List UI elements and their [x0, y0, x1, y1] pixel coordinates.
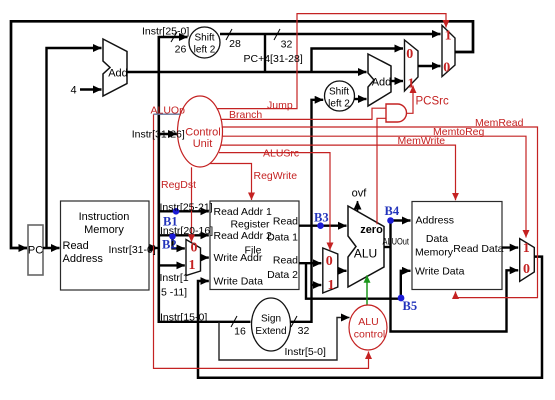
svg-text:ALUSrc: ALUSrc	[263, 148, 299, 160]
label RegDst	[161, 179, 196, 191]
label Instr[5-0]	[285, 346, 327, 358]
node B2	[162, 233, 177, 252]
svg-text:Memory: Memory	[415, 247, 454, 259]
wire ALUOp stub from control unit	[154, 113, 182, 115]
svg-text:Instr[15-0]: Instr[15-0]	[160, 312, 207, 324]
label ALUOp	[151, 105, 186, 117]
wire PC+4 branch up to PCSrc mux 0	[312, 49, 404, 73]
wire overflow out of ALU	[352, 188, 368, 212]
wire MemRead control signal to data memory bottom	[222, 127, 538, 298]
svg-text:Instr[1: Instr[1	[160, 272, 189, 284]
svg-text:Read: Read	[273, 216, 298, 228]
svg-text:Address: Address	[416, 215, 455, 227]
label 28	[226, 29, 241, 50]
label MemRead	[475, 117, 524, 129]
svg-text:Instr[25-0]: Instr[25-0]	[142, 26, 189, 38]
mux MemtoReg (write-back)	[520, 239, 535, 282]
wire B2 branch down to RegDst mux 0	[173, 235, 185, 248]
adder Add2 (branch target)	[368, 54, 391, 106]
wire junction PC+4[31-28] up	[264, 34, 266, 72]
svg-text:B4: B4	[385, 204, 400, 218]
label Instr[15-11]	[160, 272, 189, 299]
wire read data 2 to ALUSrc mux 0	[299, 262, 321, 264]
svg-text:RegWrite: RegWrite	[254, 170, 298, 182]
wire shift left 2 out to Add2	[354, 98, 367, 100]
AND gate (branch and zero)	[386, 104, 407, 122]
wire ALU result stub	[384, 246, 391, 248]
svg-text:Sign: Sign	[261, 314, 281, 325]
svg-text:PC+4[31-28]: PC+4[31-28]	[244, 53, 303, 65]
label Instr[31-26]	[132, 129, 185, 141]
svg-text:0: 0	[523, 262, 530, 277]
svg-text:28: 28	[229, 38, 241, 50]
label Jump	[267, 99, 293, 111]
wire MemWrite control signal to data memory top	[221, 145, 456, 200]
label PC+4[31-28]	[244, 53, 303, 65]
svg-text:0: 0	[191, 241, 198, 256]
label MemtoReg	[433, 126, 485, 138]
svg-text:Write Data: Write Data	[214, 276, 264, 288]
svg-text:RegDst: RegDst	[161, 179, 196, 191]
svg-text:Shift: Shift	[329, 87, 349, 98]
label Instr[25-21]	[160, 201, 213, 213]
svg-text:PC: PC	[28, 245, 43, 257]
wire sign extend out up to shift left 2 branch	[291, 100, 324, 322]
instruction memory	[61, 201, 150, 290]
node B3	[314, 211, 329, 230]
mux ALUSrc	[323, 248, 338, 293]
label ALUOut	[383, 237, 410, 247]
svg-text:32: 32	[281, 39, 293, 51]
svg-text:Add: Add	[372, 77, 392, 89]
svg-text:Data 1: Data 1	[267, 232, 298, 244]
svg-text:Write Data: Write Data	[415, 266, 465, 278]
mux PCSrc	[405, 40, 419, 92]
svg-text:Instr[5-0]: Instr[5-0]	[285, 346, 327, 358]
svg-text:1: 1	[328, 278, 335, 293]
wire MemtoReg control signal to write-back mux	[222, 136, 526, 237]
shift left 2 (jump)	[189, 27, 220, 58]
svg-text:Control: Control	[185, 127, 220, 139]
svg-text:4: 4	[70, 85, 76, 97]
svg-text:Instr[31-26]: Instr[31-26]	[132, 129, 185, 141]
wire instruction bus vertical	[158, 37, 161, 322]
label 32 (sign extended)	[291, 316, 309, 337]
shift left 2 (branch)	[325, 81, 355, 111]
wire ALUSrc control signal to ALUSrc mux	[219, 153, 330, 250]
wire Jump control signal	[217, 14, 446, 109]
wire ALU control out to ALU (green)	[366, 275, 368, 304]
svg-text:Instr[31-0]: Instr[31-0]	[109, 244, 156, 256]
svg-text:Read Data: Read Data	[453, 243, 503, 255]
svg-text:1: 1	[189, 258, 196, 273]
wire read data 2 down around to data memory write data	[306, 263, 411, 299]
label PCSrc	[416, 96, 449, 108]
label 32 (jump address)	[274, 29, 292, 51]
wire PCSrc mux out to jump mux 0	[418, 65, 441, 67]
svg-text:Instruction: Instruction	[79, 211, 130, 223]
wire instr[15-0] to sign extend	[158, 321, 251, 323]
svg-text:Read: Read	[273, 255, 298, 267]
wire constant 4 into Add1	[70, 85, 101, 97]
wire Branch control signal to AND gate	[221, 108, 387, 119]
wire instr[31-26] to control unit	[159, 133, 177, 135]
svg-text:B2: B2	[162, 238, 177, 252]
svg-text:B5: B5	[403, 299, 418, 313]
svg-text:0: 0	[443, 61, 450, 76]
wire read data 1 to ALU	[299, 224, 347, 226]
svg-text:PCSrc: PCSrc	[416, 96, 449, 108]
svg-text:Extend: Extend	[255, 326, 286, 337]
wire instr[15-11] to RegDst mux 1	[159, 264, 185, 266]
wire AND gate out PCSrc select	[407, 86, 414, 114]
mux RegDst	[186, 240, 201, 276]
svg-text:ovf: ovf	[352, 188, 368, 200]
wire Add2 out to PCSrc mux 1	[391, 80, 403, 82]
svg-text:26: 26	[175, 44, 187, 56]
label Instr[20-16]	[160, 225, 213, 237]
wire PC feedback loop from jump mux output to PC input	[11, 21, 473, 248]
svg-text:B3: B3	[314, 211, 329, 225]
wire instr[5-0] to ALU control	[219, 318, 350, 361]
wire RegDst mux out to write addr	[201, 256, 209, 258]
wire jump address to jump mux 1	[220, 33, 441, 35]
label Instr[25-0]	[142, 26, 189, 56]
wire ALUSrc mux out to ALU	[338, 270, 347, 272]
wire PC out up to Add1	[47, 48, 102, 248]
label Branch	[229, 109, 262, 121]
svg-text:Read: Read	[63, 240, 89, 252]
svg-text:Address: Address	[63, 253, 104, 265]
svg-text:16: 16	[234, 326, 246, 338]
label MemWrite	[398, 135, 446, 147]
wire ALUOp control signal to ALU control	[154, 114, 369, 368]
ALU U1	[348, 206, 384, 287]
wire PC+4 from Add1 to Add2	[127, 71, 367, 73]
svg-text:left 2: left 2	[328, 99, 350, 110]
svg-text:1: 1	[445, 29, 452, 44]
sign extend	[252, 298, 291, 351]
svg-text:Add: Add	[108, 68, 128, 80]
adder Add1 (PC+4)	[103, 39, 128, 96]
control unit	[178, 96, 223, 167]
svg-text:Data 2: Data 2	[267, 269, 298, 281]
svg-text:ALUOp: ALUOp	[151, 105, 186, 117]
node B1	[163, 208, 179, 229]
svg-text:ALUOut: ALUOut	[383, 237, 410, 247]
svg-text:Read Addr 2: Read Addr 2	[214, 230, 273, 242]
svg-text:control: control	[354, 329, 386, 341]
wire data memory read data to write-back mux 1	[502, 246, 518, 248]
PC register	[28, 225, 43, 275]
svg-text:0: 0	[326, 254, 333, 269]
svg-text:Read Addr 1: Read Addr 1	[214, 206, 273, 218]
svg-text:Branch: Branch	[229, 109, 262, 121]
node B5	[398, 295, 417, 313]
wire immediate to ALUSrc mux 1	[312, 284, 322, 286]
wire instr[25-0] to shift left 2	[158, 36, 188, 38]
ALU control	[349, 305, 387, 350]
label Instr[31-0]	[109, 244, 156, 256]
wire RegDst control signal to RegDst mux	[191, 167, 193, 242]
wire ALUOut to data memory address	[391, 219, 411, 221]
label ALUSrc	[263, 148, 299, 160]
svg-text:zero: zero	[360, 224, 383, 236]
svg-text:Data: Data	[426, 233, 448, 245]
svg-text:0: 0	[406, 47, 413, 62]
node B4	[385, 204, 400, 224]
wire instr[20-16] to read addr 2	[159, 234, 209, 236]
wire instruction memory out	[149, 247, 158, 249]
label RegWrite	[254, 170, 298, 182]
wire instr[25-21] to read addr 1	[159, 210, 209, 212]
svg-text:1: 1	[523, 241, 530, 256]
mux Jump	[442, 25, 455, 76]
svg-text:left 2: left 2	[194, 45, 216, 56]
svg-text:Shift: Shift	[194, 33, 214, 44]
svg-text:ALU: ALU	[358, 316, 378, 328]
svg-text:Instr[25-21]: Instr[25-21]	[160, 201, 213, 213]
svg-text:Memory: Memory	[84, 224, 124, 236]
data memory	[412, 202, 504, 290]
wire ALUOut vertical and around to write-back mux 0	[391, 221, 519, 332]
svg-text:MemWrite: MemWrite	[398, 135, 446, 147]
svg-text:5 -11]: 5 -11]	[161, 287, 187, 299]
svg-text:Instr[20-16]: Instr[20-16]	[160, 225, 213, 237]
wire RegWrite control signal to register file	[210, 164, 252, 201]
wire write-back mux out around bottom to register write data	[198, 257, 542, 378]
svg-text:32: 32	[298, 325, 310, 337]
svg-text:ALU: ALU	[354, 247, 377, 261]
svg-text:Register: Register	[230, 219, 270, 231]
register file	[210, 201, 299, 290]
label Instr[15-0]	[160, 312, 207, 324]
svg-text:Write Addr: Write Addr	[214, 252, 263, 264]
label 16	[231, 316, 246, 338]
wire PC to instruction memory	[43, 247, 60, 249]
svg-text:Unit: Unit	[193, 138, 213, 150]
wire zero flag from ALU to AND gate	[377, 118, 387, 224]
svg-text:Jump: Jump	[267, 99, 293, 111]
